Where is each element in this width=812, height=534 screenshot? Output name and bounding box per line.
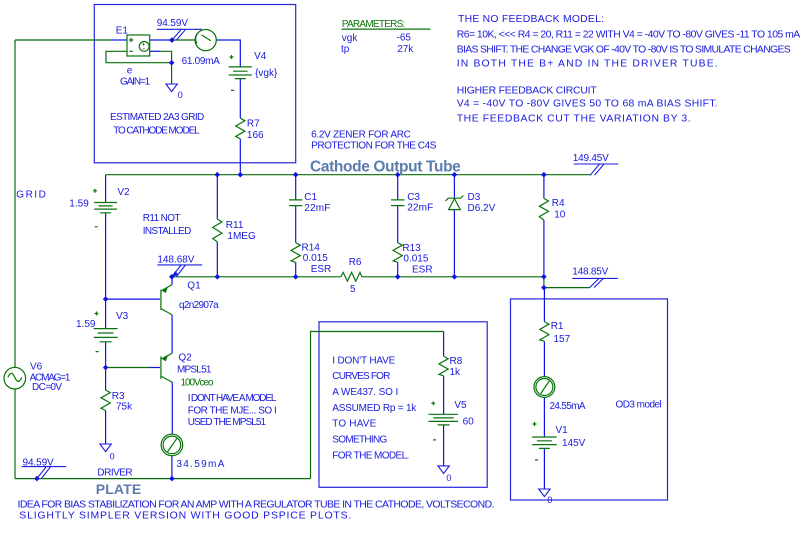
wire meter to V4	[216, 40, 240, 67]
svg-text:157: 157	[554, 334, 571, 345]
resistor R8	[439, 356, 448, 376]
resistor R3	[101, 390, 110, 411]
svg-text:Q2: Q2	[178, 353, 192, 364]
junction mid rail R4	[541, 274, 547, 280]
wire R8 to V5	[443, 376, 445, 414]
svg-text:I DONT HAVE A MODEL: I DONT HAVE A MODEL	[188, 393, 277, 404]
svg-text:R11: R11	[226, 220, 244, 231]
svg-text:PROTECTION FOR THE C4S: PROTECTION FOR THE C4S	[311, 141, 437, 152]
wire plate to R8	[311, 332, 444, 479]
svg-text:OD3 model: OD3 model	[616, 399, 662, 410]
svg-text:22mF: 22mF	[407, 203, 433, 214]
svg-text:R1: R1	[551, 321, 564, 332]
svg-text:1.59: 1.59	[76, 319, 96, 330]
wire V1 to ground	[543, 449, 545, 490]
wire R8 top lead	[443, 332, 445, 357]
svg-text:IN BOTH THE B+ AND IN THE DRIV: IN BOTH THE B+ AND IN THE DRIVER TUBE.	[457, 59, 718, 70]
current probe meter driver	[161, 434, 183, 456]
svg-text:R8: R8	[450, 356, 463, 367]
note R11 NOT INSTALLED	[143, 213, 192, 237]
resistor R4	[539, 198, 548, 220]
svg-text:TO CATHODE MODEL: TO CATHODE MODEL	[113, 126, 200, 137]
svg-text:DC=0V: DC=0V	[32, 382, 62, 393]
svg-text:0: 0	[547, 495, 552, 505]
current probe meter top	[195, 29, 216, 50]
wire meter to V1	[543, 398, 545, 438]
junction rail R4	[541, 172, 547, 178]
wire Q1 base	[106, 298, 160, 300]
wire to ground 0 in box	[171, 63, 173, 84]
wire E1 output to meter	[150, 39, 172, 41]
svg-text:R13: R13	[402, 243, 421, 254]
wire R1 to meter	[543, 341, 545, 376]
svg-text:USED THE MPSL51: USED THE MPSL51	[188, 417, 267, 428]
svg-text:FOR THE MJE... SO I: FOR THE MJE... SO I	[188, 406, 277, 417]
svg-text:R14: R14	[302, 242, 321, 253]
junction Q1 base node	[103, 296, 109, 302]
probe 148.68V	[157, 255, 202, 277]
svg-text:I DON'T HAVE: I DON'T HAVE	[332, 355, 395, 366]
ground 0 OD3	[539, 489, 553, 505]
svg-text:148.68V: 148.68V	[157, 255, 194, 266]
resistor R7	[236, 118, 245, 139]
svg-text:PARAMETERS:: PARAMETERS:	[342, 19, 406, 30]
wire meter to driver plate rail	[171, 456, 173, 479]
transistor Q2 MPSL51	[161, 353, 172, 382]
svg-text:10: 10	[554, 209, 566, 220]
svg-text:V4 = -40V TO -80V GIVES 50 TO: V4 = -40V TO -80V GIVES 50 TO 68 mA BIAS…	[457, 99, 718, 110]
wire Q1 collector to Q2 emitter	[171, 315, 173, 353]
svg-text:D6.2V: D6.2V	[468, 203, 496, 214]
annotation box WE437 note	[319, 322, 487, 488]
svg-text:R7: R7	[247, 119, 260, 130]
svg-text:V1: V1	[556, 425, 569, 436]
wire R3 to ground	[105, 411, 107, 445]
junction driver meter node	[169, 476, 175, 482]
svg-text:R4: R4	[552, 198, 565, 209]
svg-text:0: 0	[178, 90, 183, 100]
wire V5 to ground	[443, 425, 445, 466]
svg-text:GRID: GRID	[16, 190, 46, 201]
wire driver plate bottom rail	[15, 478, 311, 480]
svg-text:ESR: ESR	[412, 265, 433, 276]
svg-text:6.2V ZENER FOR ARC: 6.2V ZENER FOR ARC	[311, 129, 411, 140]
parameters block	[341, 19, 430, 55]
wire V2 to V3 column	[105, 213, 107, 329]
svg-text:C3: C3	[407, 192, 420, 203]
svg-text:E1: E1	[116, 25, 129, 36]
svg-text:BIAS SHIFT. THE CHANGE VGK OF: BIAS SHIFT. THE CHANGE VGK OF -40V TO -8…	[457, 44, 791, 55]
svg-text:{vgk}: {vgk}	[255, 68, 278, 79]
note I DONT HAVE A MODEL FOR THE MJE	[188, 393, 277, 428]
junction mid rail R13	[395, 274, 401, 280]
resistor R11	[213, 219, 222, 242]
wire Q1 emitter to mid rail	[171, 277, 173, 284]
ground 0 top box	[166, 84, 183, 100]
battery V1	[532, 422, 557, 460]
probe 94.59V bottom	[22, 458, 67, 479]
probe 94.59V top	[157, 18, 202, 40]
svg-text:Q1: Q1	[187, 281, 201, 292]
svg-text:5: 5	[350, 284, 356, 295]
resistor R6	[341, 272, 362, 281]
svg-text:V5: V5	[454, 400, 467, 411]
svg-text:75k: 75k	[116, 402, 133, 413]
wire grid rail to E1 input	[15, 39, 112, 41]
battery V3	[94, 312, 118, 352]
wire R4 leads	[543, 175, 545, 199]
wire mid cathode rail right of R6	[362, 276, 544, 278]
junction mid rail R11	[215, 274, 221, 280]
svg-text:MPSL51: MPSL51	[177, 364, 212, 375]
svg-text:27k: 27k	[397, 44, 414, 55]
wire rail to V2	[105, 175, 107, 203]
wire node to R1	[543, 288, 545, 322]
wire Q2 collector to meter	[171, 382, 173, 434]
note 6.2V zener for arc protection	[311, 129, 437, 151]
wire Q2 base	[106, 367, 150, 369]
svg-text:1.59: 1.59	[69, 199, 89, 210]
svg-text:GAIN=1: GAIN=1	[120, 76, 151, 87]
probe 148.85V	[572, 266, 618, 287]
svg-text:SOMETHING: SOMETHING	[332, 435, 387, 446]
resistor R13	[393, 243, 402, 263]
svg-text:tp: tp	[341, 44, 350, 55]
wire mid cathode rail left of R6	[172, 276, 341, 278]
wire C3 R13 leads	[397, 175, 399, 200]
svg-text:D3: D3	[468, 192, 481, 203]
ground 0 below R3	[100, 444, 115, 462]
svg-text:FOR THE MODEL.: FOR THE MODEL.	[332, 450, 409, 461]
svg-text:0.015: 0.015	[403, 253, 428, 264]
junction plate probe node	[34, 476, 40, 482]
wire GRID left rail	[14, 40, 16, 367]
ac source V6	[4, 367, 26, 389]
svg-text:148.85V: 148.85V	[572, 266, 608, 277]
svg-text:34.59mA: 34.59mA	[176, 459, 224, 470]
svg-text:149.45V: 149.45V	[573, 153, 609, 164]
note THE NO FEEDBACK MODEL paragraph	[457, 14, 801, 125]
svg-text:Cathode Output Tube: Cathode Output Tube	[310, 158, 461, 175]
probe 149.45V	[573, 153, 619, 175]
capacitor C1	[289, 200, 302, 206]
wire D3 leads	[453, 175, 455, 198]
svg-text:1k: 1k	[450, 367, 462, 378]
svg-text:94.59V: 94.59V	[157, 18, 189, 29]
wire E1 feedback loop	[106, 51, 172, 62]
svg-text:vgk: vgk	[342, 33, 359, 44]
svg-text:24.55mA: 24.55mA	[550, 401, 586, 412]
svg-text:R3: R3	[112, 391, 125, 402]
svg-text:PLATE: PLATE	[96, 481, 142, 497]
junction B+ drop node	[541, 285, 547, 291]
svg-text:R6: R6	[349, 257, 362, 268]
svg-text:22mF: 22mF	[304, 203, 330, 214]
note WE437 text block	[332, 355, 417, 461]
svg-text:61.09mA: 61.09mA	[182, 56, 221, 67]
svg-text:C1: C1	[304, 192, 317, 203]
svg-text:CURVES FOR: CURVES FOR	[332, 371, 390, 382]
svg-text:TO HAVE: TO HAVE	[332, 419, 376, 430]
svg-text:ESTIMATED 2A3 GRID: ESTIMATED 2A3 GRID	[110, 112, 204, 123]
junction rail D3	[452, 172, 458, 178]
junction Q2 base node	[103, 365, 109, 371]
junction mid rail Q1	[169, 274, 175, 280]
note ESTIMATED 2A3 GRID TO CATHODE MODEL	[110, 112, 204, 137]
svg-text:e: e	[127, 66, 133, 77]
junction mid rail R14	[293, 274, 299, 280]
svg-text:q2n2907a: q2n2907a	[179, 300, 219, 311]
annotation box OD3 model	[511, 299, 668, 500]
wire B+ node drop and probe stub	[544, 277, 590, 288]
wire C1 R14 leads	[295, 175, 297, 200]
wire R7 to cathode rail	[239, 139, 241, 175]
svg-text:THE FEEDBACK CUT THE VARIATION: THE FEEDBACK CUT THE VARIATION BY 3.	[457, 114, 691, 125]
junction E1 ground node	[169, 60, 175, 66]
svg-text:0.015: 0.015	[303, 253, 328, 264]
resistor R1	[540, 322, 549, 342]
svg-text:INSTALLED: INSTALLED	[143, 226, 192, 237]
svg-text:THE NO FEEDBACK MODEL:: THE NO FEEDBACK MODEL:	[458, 14, 604, 25]
svg-text:V2: V2	[117, 187, 130, 198]
svg-text:V3: V3	[116, 311, 129, 322]
junction rail R7	[238, 172, 244, 178]
svg-text:166: 166	[247, 130, 264, 141]
battery V5	[428, 401, 458, 440]
svg-text:V6: V6	[30, 362, 43, 373]
junction rail R11	[215, 172, 221, 178]
svg-text:R6= 10K, <<< R4 = 20, R11 = 22: R6= 10K, <<< R4 = 20, R11 = 22 WITH V4 =…	[457, 30, 801, 41]
svg-text:A WE437. SO I: A WE437. SO I	[332, 387, 398, 398]
current probe meter OD3	[534, 377, 555, 398]
svg-text:60: 60	[463, 416, 475, 427]
resistor R14	[291, 243, 300, 263]
zener diode D3	[446, 196, 464, 210]
svg-text:SLIGHTLY SIMPLER VERSION WITH: SLIGHTLY SIMPLER VERSION WITH GOOD PSPIC…	[19, 510, 351, 522]
svg-text:100Vceo: 100Vceo	[181, 377, 214, 388]
svg-text:DRIVER: DRIVER	[97, 468, 132, 479]
capacitor C3	[391, 200, 404, 206]
svg-text:R11 NOT: R11 NOT	[143, 213, 181, 224]
junction rail C1	[293, 172, 299, 178]
svg-text:0: 0	[446, 473, 451, 483]
junction E1 output node	[169, 37, 175, 43]
svg-text:HIGHER FEEDBACK CIRCUIT: HIGHER FEEDBACK CIRCUIT	[457, 85, 598, 96]
svg-text:ESR: ESR	[311, 264, 332, 275]
wire E1 output minus	[150, 50, 160, 52]
junction mid rail D3	[452, 274, 458, 280]
svg-text:1MEG: 1MEG	[227, 231, 256, 242]
battery V4	[229, 55, 252, 90]
svg-text:0: 0	[110, 452, 115, 462]
ground 0 WE437 box	[438, 466, 452, 483]
wire R11 leads	[216, 175, 218, 219]
wire V3 to R3	[105, 342, 107, 390]
wire V4 to R7	[239, 79, 241, 118]
battery V2	[93, 189, 117, 227]
junction rail C3	[395, 172, 401, 178]
op-amp style VCVS E1 body	[127, 35, 150, 56]
transistor Q1 q2n2907a	[161, 285, 172, 315]
svg-text:ASSUMED Rp = 1k: ASSUMED Rp = 1k	[332, 403, 417, 414]
svg-text:145V: 145V	[562, 438, 586, 449]
wire cathode top rail	[106, 174, 592, 176]
svg-text:V4: V4	[254, 51, 267, 62]
svg-text:-65: -65	[397, 32, 412, 43]
annotation box estimated 2A3 model	[94, 5, 295, 163]
